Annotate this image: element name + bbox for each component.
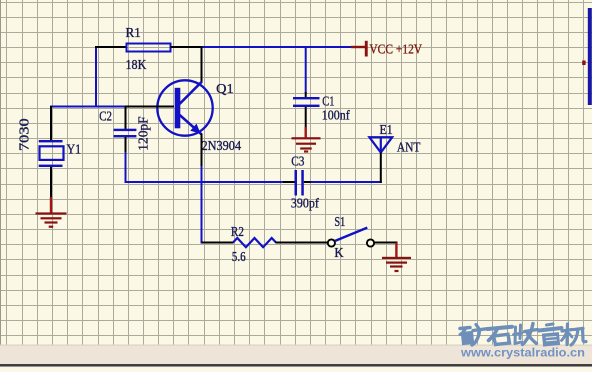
svg-text:S1: S1 [334, 214, 345, 229]
wire: R1 right lead to collector node (black) [171, 46, 203, 48]
watermark: www.crystalradio.cn [460, 346, 585, 360]
label C3 value 390pf [291, 196, 319, 211]
resistor R1 [127, 44, 171, 52]
svg-text:VCC +12V: VCC +12V [369, 41, 422, 56]
resistor R2 [233, 238, 276, 247]
ground: right of switch [382, 243, 411, 273]
svg-text:K: K [334, 245, 343, 260]
svg-text:5.6: 5.6 [232, 249, 246, 264]
wire: base wire from crystal to C2 node (blue) [50, 106, 126, 108]
label ANT [397, 140, 421, 155]
wire: C3 left pin (black) [283, 181, 295, 183]
svg-text:C3: C3 [291, 153, 305, 168]
svg-text:C1: C1 [322, 94, 334, 109]
wire: R2 to switch (black) [276, 242, 328, 244]
label C1 designator [322, 94, 334, 109]
label C2 designator [99, 109, 112, 124]
svg-text:R1: R1 [126, 25, 141, 40]
capacitor C3 [295, 170, 304, 196]
wire: Q1 collector pin (black) [201, 46, 203, 83]
wire: C3 to antenna (blue) [311, 181, 382, 183]
wire: C2 top pin (black) [125, 106, 127, 129]
svg-text:2N3904: 2N3904 [202, 138, 242, 153]
antenna E1 [369, 137, 392, 152]
svg-text:Q1: Q1 [216, 81, 234, 96]
wire: Q1 base pin (black) [125, 106, 174, 108]
svg-text:7030: 7030 [17, 118, 32, 151]
wire: emitter down to switch row (blue) [201, 166, 203, 244]
power VCC +12V [351, 41, 368, 57]
label C3 designator [291, 153, 305, 168]
label Q1 value 2N3904 [202, 138, 242, 153]
label E1 designator [380, 122, 393, 137]
label C1 value 100nf [322, 108, 350, 123]
svg-text:E1: E1 [380, 122, 393, 137]
label VCC +12V [369, 41, 422, 56]
ground: below Y1 [36, 197, 67, 228]
label R2 value 5.6 [232, 249, 246, 264]
wire: C1 top pin (black) [305, 92, 307, 98]
label Y1 designator [67, 142, 82, 157]
switch S1 [328, 228, 374, 247]
wire: C1 bottom pin (black) [305, 107, 307, 128]
label R1 value 18K [126, 57, 147, 72]
wire: left vertical from R1 node down to base wire [95, 46, 97, 107]
ground: below C1 [292, 127, 321, 153]
label R2 designator [231, 224, 244, 239]
svg-text:www.crystalradio.cn: www.crystalradio.cn [460, 346, 585, 360]
wire: crystal bottom pin (black) [50, 167, 52, 198]
wire: C2 to lower rail (blue) [125, 152, 127, 183]
svg-text:390pf: 390pf [291, 196, 319, 211]
wire: antenna pin (black) [380, 153, 382, 184]
capacitor C1 [293, 97, 320, 107]
label R1 designator [126, 25, 141, 40]
svg-text:R2: R2 [231, 224, 244, 239]
svg-text:100nf: 100nf [322, 108, 350, 123]
label C2 value 120pF (vertical) [135, 116, 150, 151]
node: maroon junction dot at right edge [582, 61, 585, 66]
svg-text:120pF: 120pF [135, 116, 150, 151]
transistor Q1 [157, 80, 212, 135]
label Y1 value 7030 (vertical) [17, 118, 32, 151]
svg-text:C2: C2 [99, 109, 112, 124]
wire: switch to ground (black) [374, 242, 397, 244]
wire: C1 branch from top rail (blue) [305, 46, 307, 93]
label S1 value K [334, 245, 343, 260]
crystal Y1 [39, 140, 64, 167]
label S1 designator [334, 214, 345, 229]
wire: R2 left lead (black) [202, 242, 234, 244]
wire: Q1 emitter pin (black) [201, 134, 203, 167]
label Q1 designator [216, 81, 234, 96]
wire: clipped vertical at right edge [588, 8, 592, 105]
wire: C3 right pin (black) [304, 181, 312, 183]
wire: crystal top pin (black) [50, 106, 52, 141]
wire: C2 bottom pin (black) [125, 137, 127, 153]
wire: collector node to VCC (blue) [201, 46, 352, 48]
bottom strip [0, 345, 592, 368]
wire: R1 left lead (black) [95, 46, 126, 48]
svg-text:ANT: ANT [397, 140, 421, 155]
wire: lower rail C2 to C3 (blue) [125, 181, 285, 183]
watermark: 矿石收音机 [460, 324, 586, 346]
svg-text:Y1: Y1 [67, 142, 82, 157]
svg-text:18K: 18K [126, 57, 147, 72]
capacitor C2 [114, 129, 137, 138]
